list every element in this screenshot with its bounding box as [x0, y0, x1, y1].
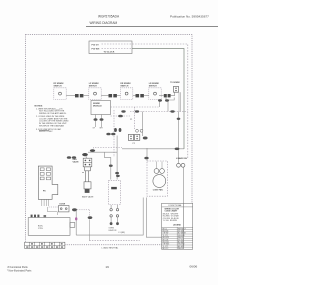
harness connector P6: [38, 166, 58, 199]
svg-text:P1: P1: [130, 119, 132, 121]
svg-text:BK L1C: BK L1C: [163, 248, 170, 250]
svg-text:* Non-Illustrated Parts: * Non-Illustrated Parts: [7, 269, 32, 272]
svg-text:IGNITOR: IGNITOR: [109, 230, 117, 232]
svg-text:MODULE: MODULE: [93, 106, 102, 108]
svg-text:WH: WH: [100, 127, 104, 129]
svg-text:BAKE VALVE: BAKE VALVE: [82, 196, 94, 199]
connector J2: [101, 94, 120, 97]
header publication number text: [170, 14, 209, 18]
convection fan motor M1: [147, 161, 168, 196]
svg-text:# BAKE IGN: # BAKE IGN: [176, 157, 187, 160]
wire W3 dashed from spark module to control enclosure: [111, 106, 159, 108]
bake igniter label: [176, 157, 187, 167]
svg-text:CTRL: CTRL: [38, 228, 44, 230]
wire W2 solid from lockout box right to right side then down: [102, 48, 133, 50]
wire W7 vertical from row end down: [159, 99, 161, 107]
wire from P6 routed to control box: [48, 207, 58, 215]
wire W11 vertical right with connector: [177, 112, 181, 164]
oven igniter wires below relay: [109, 205, 119, 232]
spark module box U2: [91, 101, 111, 115]
legend table: [162, 203, 193, 250]
wire W18 right vertical down to table: [183, 167, 185, 203]
svg-text:P10 GY: P10 GY: [92, 44, 100, 46]
svg-text:SWITCH: SWITCH: [89, 86, 97, 88]
connector J6 on dashed lead: [111, 115, 131, 118]
wire W4b dashed vertical console edge: [113, 110, 115, 157]
svg-text:WIRING DIAGRAM: WIRING DIAGRAM: [90, 21, 118, 25]
wire W6 spark module lead B: [100, 115, 104, 128]
spark module connector J5: [166, 81, 181, 111]
oven relay box U3: [108, 175, 120, 205]
door switch S1: [59, 203, 78, 212]
wire W4 dashed horizontal bus: [130, 111, 188, 113]
wire W14 stub to gas valve: [85, 156, 87, 158]
svg-text:WH N3: WH N3: [178, 248, 183, 250]
svg-text:SHOWN IN THE DIAGRAM.: SHOWN IN THE DIAGRAM.: [39, 125, 65, 128]
svg-text:06/06: 06/06: [190, 265, 198, 269]
connector J3: [133, 94, 149, 97]
svg-text:L1 (BK): L1 (BK): [119, 232, 126, 234]
svg-text:P6: P6: [43, 190, 46, 192]
svg-text:WIRING OF THE APPLIANCE.: WIRING OF THE APPLIANCE.: [39, 112, 67, 115]
connector blobs on bus: [121, 110, 125, 112]
gas valve V1: [67, 156, 94, 198]
wire W9 vertical dashed into cluster: [134, 107, 136, 129]
oven control box U4: [28, 215, 75, 236]
wire W13 solid horizontal: [88, 151, 117, 153]
connector J4: [159, 94, 171, 97]
svg-text:WGF5705ADA: WGF5705ADA: [98, 14, 120, 18]
svg-text:P10 WH: P10 WH: [92, 49, 100, 51]
notes text block: [35, 106, 70, 134]
wire W21 dashed neutral bus: [89, 240, 139, 242]
wire W8 vertical from connector down: [167, 99, 169, 111]
wires from connector P6 down: [42, 199, 49, 206]
svg-text:DOOR: DOOR: [60, 203, 66, 205]
svg-text:GY: GY: [93, 127, 96, 129]
terminal strip bottom row labels: [26, 247, 28, 248]
wire W1 dashed from lockout box right to right side then down: [102, 44, 188, 159]
connector J1: [66, 94, 89, 97]
svg-text:# FUNCTIONAL: # FUNCTIONAL: [168, 204, 182, 207]
wire W20 bottom solid run A: [76, 198, 143, 236]
svg-text:CONV FAN: CONV FAN: [153, 189, 163, 192]
wire W17 drop to relay box b: [115, 136, 119, 180]
spark switch SW4: [149, 82, 161, 99]
header model number text: [98, 14, 120, 18]
terminal strip top row pin numbers: [31, 243, 33, 244]
svg-text:Publication No. 5995435677: Publication No. 5995435677: [170, 14, 209, 18]
wire W5 spark module lead A: [94, 115, 98, 128]
header rule: [86, 26, 218, 28]
spark switch SW2: [89, 82, 101, 99]
wire W10 vertical into cluster: [142, 112, 144, 137]
svg-text:SUPPLY ONLY.: SUPPLY ONLY.: [39, 131, 53, 133]
node cluster connectors P1 P2: [106, 128, 147, 145]
wire W19b connector at control box right: [88, 216, 93, 240]
svg-text:SWITCH: SWITCH: [149, 86, 157, 88]
svg-text:19: 19: [105, 265, 109, 269]
wire dashed from P6 right to door switch: [49, 206, 59, 208]
svg-text:NOTES:: NOTES:: [35, 106, 44, 108]
spark switch SW3: [120, 82, 132, 99]
svg-text:TO CLOCK: TO CLOCK: [104, 52, 115, 54]
svg-text:TO SPARK: TO SPARK: [170, 81, 180, 84]
diagram outer dashed border: [26, 35, 193, 245]
svg-text:YL-YEL BR-BRN: YL-YEL BR-BRN: [163, 220, 178, 222]
svg-text:SWITCH: SWITCH: [120, 86, 128, 88]
wire W20b bottom solid run B: [146, 198, 161, 238]
node cluster top connectors: [158, 99, 169, 101]
terminal strip TB1: [25, 242, 65, 248]
wire W12 dashed bus horizontal mid: [82, 148, 184, 157]
svg-text:L1 AND NEUTRAL: L1 AND NEUTRAL: [102, 247, 120, 250]
svg-text:VALVE: VALVE: [73, 160, 80, 163]
lockout box U1: [89, 41, 132, 54]
wire W19 door switch drop to bottom run: [75, 211, 77, 235]
spark switch SW1: [54, 82, 67, 99]
svg-text:CODE CHART: CODE CHART: [165, 209, 178, 212]
svg-text:LEGEND: LEGEND: [173, 225, 182, 227]
wire W15 vertical drop with connector: [144, 148, 148, 161]
svg-text:SWITCH: SWITCH: [54, 86, 62, 88]
svg-text:P2: P2: [133, 143, 136, 145]
wire W18b vertical crossing legend table: [183, 203, 185, 249]
wire W16 drop to relay box: [104, 152, 112, 179]
header title WIRING DIAGRAM: [90, 21, 118, 25]
